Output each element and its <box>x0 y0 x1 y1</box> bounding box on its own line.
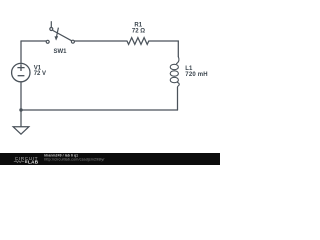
node junction <box>19 108 22 111</box>
wire left vertical lower <box>20 82 22 110</box>
wire bottom <box>21 109 178 111</box>
resistor R1 <box>127 38 149 45</box>
svg-text:http://circuitlab.com/csadjsm2: http://circuitlab.com/csadjsm298lyr <box>44 157 105 161</box>
svg-text:L1: L1 <box>185 66 193 72</box>
svg-text:LAB: LAB <box>28 159 39 164</box>
switch SW1 <box>46 21 74 43</box>
svg-text:720 mH: 720 mH <box>185 72 207 78</box>
logo zigzag <box>14 161 24 163</box>
wire left vertical upper <box>20 41 22 64</box>
voltage source V1 <box>12 63 30 81</box>
inductor L1 <box>170 57 179 87</box>
footer bar <box>0 153 220 165</box>
wire right vertical upper <box>177 41 179 57</box>
svg-text:72 Ω: 72 Ω <box>132 28 145 34</box>
wire switch-to-resistor <box>74 40 127 42</box>
svg-text:SW1: SW1 <box>53 49 67 55</box>
wire resistor-to-corner <box>149 40 179 42</box>
wire top-left segment <box>21 40 46 42</box>
ground <box>13 110 29 134</box>
svg-text:72 V: 72 V <box>34 71 46 77</box>
logo capacitor <box>25 160 26 163</box>
wire right vertical lower <box>177 87 179 110</box>
